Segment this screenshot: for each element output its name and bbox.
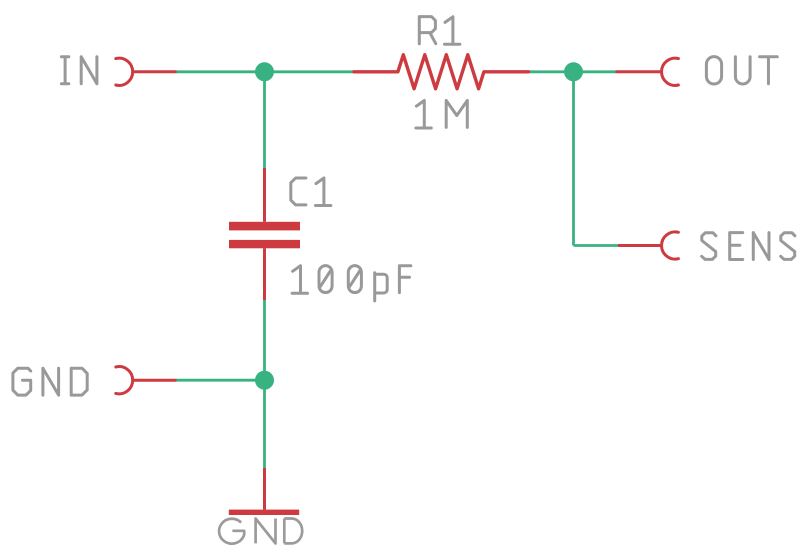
label R1 [419, 17, 460, 45]
pin IN stub [133, 70, 177, 73]
net name GND (value text under ground symbol) [219, 519, 302, 544]
wire horizontal to SENS pin [574, 244, 619, 247]
pin GND stub [133, 379, 177, 382]
wire vertical capacitor C1 bottom to junction C and GND symbol [263, 300, 266, 468]
pin SENS stub [618, 244, 661, 247]
wire net from junction A to resistor R1 left [265, 70, 355, 73]
label 100pF [292, 266, 411, 301]
capacitor C1 [229, 168, 300, 300]
junction B [564, 62, 583, 81]
pin IN connector arc [116, 58, 133, 85]
label OUT [706, 57, 777, 84]
pin SENS connector arc [662, 232, 679, 259]
wire net resistor R1 right to junction B and OUT stub [529, 70, 616, 73]
junction A [255, 62, 274, 81]
label GND [13, 368, 87, 395]
wire net IN (pin stub to junction A) [177, 70, 265, 73]
pin GND connector arc [116, 367, 133, 394]
label IN [61, 57, 97, 84]
label C1 [291, 178, 331, 206]
pin OUT stub [616, 70, 662, 73]
wire vertical junction B down to SENS row [572, 72, 575, 246]
resistor R1 [354, 55, 529, 89]
pin OUT connector arc [662, 58, 679, 85]
label 1M [416, 101, 467, 129]
wire net GND pin stub to junction C [177, 379, 265, 382]
junction C [255, 371, 274, 390]
wire vertical junction A down to capacitor C1 [263, 72, 266, 168]
ground symbol GND [229, 468, 299, 515]
label SENS [702, 233, 795, 260]
